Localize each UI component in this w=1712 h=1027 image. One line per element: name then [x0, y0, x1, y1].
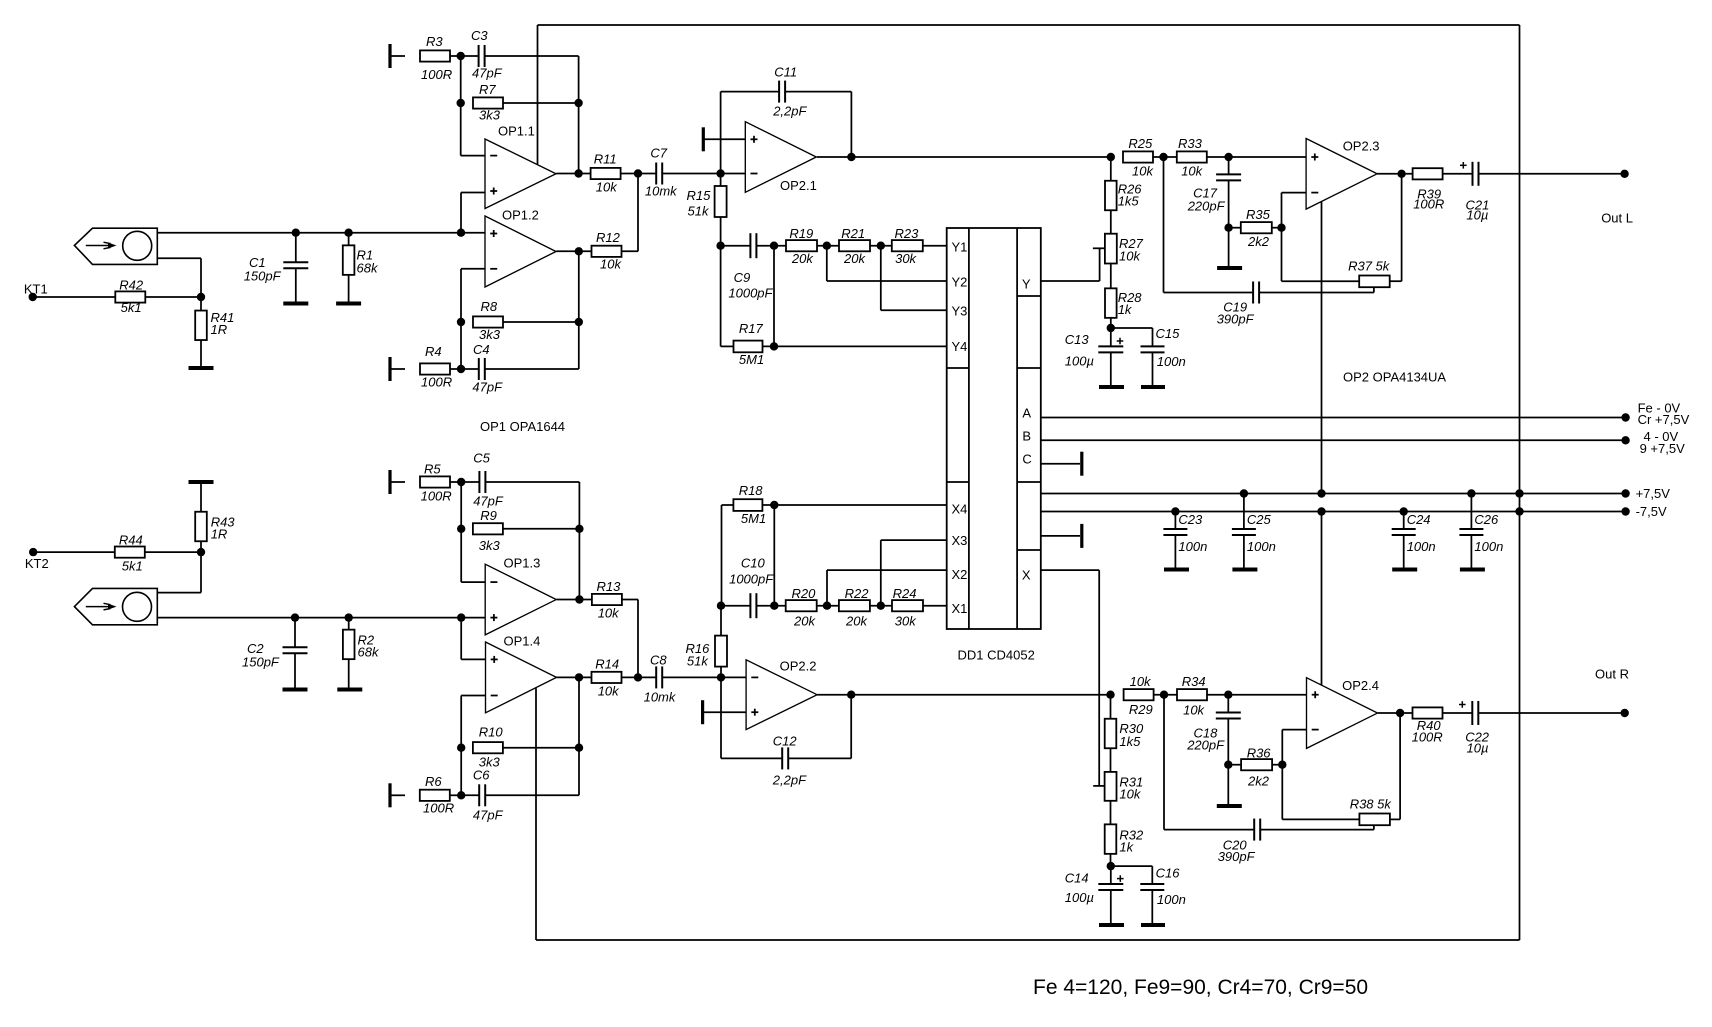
svg-text:R29: R29 [1129, 702, 1153, 717]
ground terminal at OP2.1 + input [702, 127, 705, 151]
svg-text:R34: R34 [1182, 674, 1206, 689]
resistor R29 [1124, 674, 1154, 717]
node: OP2.4 - junction [1278, 761, 1286, 769]
capacitor C20 [1164, 695, 1374, 864]
svg-text:C15: C15 [1156, 326, 1181, 341]
capacitor C9 [721, 233, 774, 300]
resistor R3 [420, 34, 452, 82]
svg-text:10k: 10k [596, 180, 618, 195]
svg-text:C26: C26 [1474, 512, 1499, 527]
wire: feedback column to OP1.3 output [578, 529, 580, 600]
wire: R40 to C22 [1443, 712, 1473, 714]
svg-text:3k3: 3k3 [479, 327, 501, 342]
svg-text:C6: C6 [473, 768, 490, 783]
wire: OP2.4 - input net [1282, 730, 1306, 820]
node: OP1.3 output junction [575, 595, 583, 603]
resistor R42 [115, 278, 145, 316]
wire: right supply rail [1519, 25, 1521, 940]
svg-text:100n: 100n [1474, 539, 1503, 554]
svg-text:1k: 1k [1118, 302, 1133, 317]
capacitor C6 [461, 768, 503, 823]
svg-text:C25: C25 [1247, 512, 1272, 527]
resistor R30 [1105, 695, 1144, 749]
resistor R41 [195, 297, 234, 340]
svg-text:100n: 100n [1407, 539, 1436, 554]
svg-text:10k: 10k [1132, 164, 1154, 179]
svg-text:150pF: 150pF [244, 269, 282, 284]
svg-text:A: A [1022, 406, 1031, 421]
svg-text:+7,5V: +7,5V [1636, 486, 1671, 501]
svg-text:R24: R24 [893, 586, 917, 601]
svg-text:100n: 100n [1157, 354, 1186, 369]
ground below C15 [1141, 385, 1165, 389]
op-amp OP1.1 [485, 124, 556, 209]
node: rail junction OP2.4 supply [1317, 507, 1325, 515]
wire: terminal to R3 [390, 55, 405, 57]
wire: X output tap to R31 [1093, 785, 1105, 787]
wire: R8 node down to C4 node [460, 322, 462, 369]
svg-text:20k: 20k [845, 614, 868, 629]
resistor R44 [115, 533, 145, 574]
wire: OP1.4 - input [461, 696, 485, 748]
ground below R41 [189, 340, 214, 368]
resistor R27 [1105, 234, 1144, 264]
svg-text:C11: C11 [774, 65, 797, 80]
resistor R35 [1229, 207, 1272, 249]
wire: R44 to node [145, 551, 201, 553]
svg-text:OP2.1: OP2.1 [780, 178, 817, 193]
wire: OP2.1 - input stub [721, 173, 746, 175]
svg-text:Out R: Out R [1595, 667, 1629, 682]
svg-text:C9: C9 [734, 270, 751, 285]
node: OP2.2 out / R30 junction [1106, 691, 1114, 699]
capacitor C23 [1163, 512, 1207, 569]
svg-text:9 +7,5V: 9 +7,5V [1640, 441, 1686, 456]
node: OP2.1 - junction [716, 169, 724, 177]
svg-text:2,2pF: 2,2pF [772, 773, 807, 788]
wire: +7,5V rail [1041, 493, 1626, 495]
wire: R23 to DD1 Y1 [923, 245, 947, 247]
wire: OP2.1 output to R25 [817, 156, 1111, 158]
svg-text:100n: 100n [1157, 892, 1186, 907]
node: R9 left junction [457, 525, 465, 533]
svg-text:Cr +7,5V: Cr +7,5V [1638, 412, 1690, 427]
wire: Y output tap to R27 [1093, 247, 1105, 249]
wire: C9 to R19 [756, 245, 785, 247]
node: C2 top junction [291, 613, 299, 621]
svg-text:10mk: 10mk [645, 184, 678, 199]
multiplexer DD1 CD4052 body [947, 228, 1041, 629]
svg-text:C10: C10 [741, 556, 766, 571]
capacitor C22 polarity + [1459, 701, 1466, 708]
svg-text:-7,5V: -7,5V [1636, 504, 1667, 519]
wire: DD1 B control line [1041, 439, 1626, 441]
svg-text:OP1 OPA1644: OP1 OPA1644 [480, 419, 565, 434]
wire: C21 to Out L [1479, 173, 1625, 175]
svg-text:C7: C7 [650, 146, 667, 161]
cartridge input J1 (channel L) [74, 228, 157, 264]
svg-text:5k1: 5k1 [122, 559, 143, 574]
svg-text:10k: 10k [598, 684, 620, 699]
wire: vertical R3 node to OP1.1 - input [461, 56, 485, 156]
node: R3/C3/R7 column junction [457, 52, 465, 60]
svg-text:C3: C3 [471, 28, 488, 43]
node: R10 left junction [457, 744, 465, 752]
svg-text:Y1: Y1 [952, 240, 968, 255]
capacitor C7 [638, 146, 678, 199]
wire: terminal to OP2.2 + [703, 711, 747, 713]
ground below R1 [336, 302, 361, 306]
resistor R6 [420, 774, 454, 816]
svg-text:20k: 20k [791, 251, 814, 266]
resistor R9 [473, 508, 503, 553]
resistor R34 [1177, 674, 1207, 718]
svg-text:10k: 10k [1119, 249, 1141, 264]
wire: R33 to OP2.3 + [1207, 156, 1306, 158]
svg-text:C8: C8 [650, 653, 667, 668]
svg-text:68k: 68k [358, 645, 380, 660]
node: R29/R34/C20 junction [1160, 691, 1168, 699]
svg-text:OP2 OPA4134UA: OP2 OPA4134UA [1343, 370, 1446, 385]
cartridge input J2 (channel R) [74, 588, 157, 624]
wire: -7,5V rail [1041, 511, 1626, 513]
resistor R12 [592, 230, 623, 272]
wire: R31 to R32 [1110, 801, 1112, 825]
ground below C18 [1217, 804, 1242, 808]
resistor R1 [343, 233, 379, 302]
ground below C23 [1164, 568, 1189, 572]
wire: R14 to C8 node [622, 676, 639, 678]
wire: C5 to feedback column [485, 482, 579, 529]
node: R34/C18 junction [1224, 691, 1232, 699]
resistor R10 [473, 725, 504, 770]
svg-text:R37 5k: R37 5k [1348, 259, 1391, 274]
wire: R7 right to feedback column [503, 102, 579, 104]
svg-text:KT1: KT1 [24, 282, 48, 297]
resistor R36 [1228, 746, 1272, 789]
resistor R32 [1105, 824, 1144, 854]
svg-text:47pF: 47pF [472, 66, 503, 81]
ground below C26 [1460, 568, 1485, 572]
svg-text:X: X [1022, 568, 1031, 583]
resistor R33 [1177, 136, 1207, 179]
capacitor C3 [461, 28, 503, 81]
label OP2 OPA4134UA [1343, 370, 1446, 385]
resistor R37 [1282, 259, 1391, 288]
ground below C2 [283, 688, 308, 692]
svg-text:R17: R17 [739, 321, 764, 336]
svg-text:R14: R14 [595, 657, 619, 672]
resistor R40 [1412, 707, 1443, 744]
wire: R21 to R23 [870, 245, 892, 247]
node: C9 right junction [770, 242, 778, 250]
wire: DD1 INH pin [1041, 535, 1080, 537]
wire: R5 to C5 node [450, 481, 461, 483]
wire: R15 node down to R17 [721, 246, 734, 347]
svg-text:1R: 1R [211, 527, 228, 542]
svg-text:1R: 1R [211, 322, 228, 337]
svg-text:2,2pF: 2,2pF [772, 104, 807, 119]
svg-text:R3: R3 [426, 34, 443, 49]
svg-text:10µ: 10µ [1466, 208, 1488, 223]
svg-text:R21: R21 [841, 226, 865, 241]
wire: R19 to R21 [817, 245, 839, 247]
svg-text:1k5: 1k5 [1118, 194, 1140, 209]
resistor R2 [343, 618, 380, 688]
svg-text:390pF: 390pF [1217, 312, 1255, 327]
resistor R13 [592, 579, 622, 621]
ground terminal at OP2.2 + input [701, 700, 704, 724]
svg-text:30k: 30k [895, 251, 917, 266]
node: R18 right junction [770, 501, 778, 509]
svg-text:2k2: 2k2 [1247, 774, 1270, 789]
svg-text:R10: R10 [479, 725, 504, 740]
capacitor C12 [721, 677, 851, 787]
svg-text:R20: R20 [792, 586, 817, 601]
node: C14/C16 junction [1107, 862, 1115, 870]
capacitor C19 [1164, 157, 1374, 327]
resistor R26 [1105, 157, 1142, 210]
wire: DD1 C control pin [1041, 463, 1080, 465]
svg-text:C13: C13 [1065, 332, 1090, 347]
op-amp OP1.3 [485, 556, 556, 635]
svg-text:20k: 20k [793, 614, 816, 629]
wire: R13 down to R14 node [622, 600, 638, 678]
svg-text:R23: R23 [895, 226, 920, 241]
svg-text:C5: C5 [473, 451, 490, 466]
wire: R3 to C3 node [450, 55, 457, 57]
svg-text:5M1: 5M1 [739, 352, 764, 367]
svg-text:10mk: 10mk [644, 690, 677, 705]
capacitor C5 [461, 451, 504, 509]
svg-text:R36: R36 [1247, 746, 1272, 761]
capacitor C4 [461, 342, 503, 395]
wire: terminal to R4 [390, 368, 405, 370]
wire: feedback column to OP1.1 output [578, 103, 580, 174]
svg-text:3k3: 3k3 [479, 538, 501, 553]
input terminal of R3 [388, 44, 391, 68]
capacitor C2 [242, 618, 308, 688]
wire: C6 to feedback column [485, 794, 579, 796]
node: R9 right junction [575, 525, 583, 533]
svg-text:X2: X2 [952, 567, 968, 582]
node: C9 node (R15 bottom) [716, 242, 724, 250]
node: R5/C5 junction [457, 478, 465, 486]
node: main L node at OP1.2 + [457, 229, 465, 237]
wire: R8 right to feedback column [503, 321, 579, 323]
resistor R43 [195, 512, 235, 552]
op-amp OP2.3 [1306, 139, 1379, 210]
wire: C9 right node down to R17 node [773, 246, 775, 347]
svg-text:68k: 68k [357, 261, 379, 276]
capacitor C15 [1111, 326, 1186, 386]
svg-text:390pF: 390pF [1218, 849, 1256, 864]
svg-text:Fe 4=120, Fe9=90, Cr4=70, Cr9=: Fe 4=120, Fe9=90, Cr4=70, Cr9=50 [1033, 976, 1368, 999]
node: C10 node [717, 602, 725, 610]
wire: OP1.1 + input [461, 193, 485, 233]
ground below C13 [1099, 385, 1124, 389]
wire: R27 to R28 [1110, 264, 1112, 289]
wire: R19/R21 node to DD1 Y2 [827, 246, 947, 281]
node: R33/C17 junction [1224, 153, 1232, 161]
capacitor C21 polarity + [1460, 162, 1467, 169]
capacitor C18 [1186, 695, 1241, 804]
wire: C10 to R20 [756, 605, 786, 607]
svg-text:C4: C4 [473, 342, 490, 357]
wire: R25 to R33 [1153, 156, 1177, 158]
svg-text:OP1.2: OP1.2 [502, 208, 539, 223]
svg-text:47pF: 47pF [473, 808, 504, 823]
ground below C24 [1392, 568, 1417, 572]
svg-text:Y3: Y3 [952, 304, 968, 319]
svg-text:220pF: 220pF [1187, 199, 1226, 214]
resistor R4 [420, 344, 452, 390]
resistor R28 [1105, 288, 1142, 318]
svg-text:R38 5k: R38 5k [1350, 797, 1393, 812]
svg-text:R11: R11 [594, 152, 617, 167]
wire: cartridge J1 output to OP1.2 + input (main L node) [157, 232, 485, 234]
op-amp OP2.4 [1307, 678, 1379, 749]
svg-text:100n: 100n [1178, 539, 1207, 554]
wire: R18 left down to C10 node [721, 505, 723, 606]
node: R19/R21 junction [823, 242, 831, 250]
node: -7,5V terminal [1621, 504, 1667, 519]
wire: R36 to OP2.4 - node [1272, 764, 1282, 766]
node: R4/C4 junction [457, 365, 465, 373]
node KT2 terminal [25, 548, 49, 571]
node: rail junction right rail - [1515, 507, 1523, 515]
svg-text:Y2: Y2 [952, 275, 968, 290]
svg-text:X4: X4 [952, 502, 968, 517]
wire: C22 to Out R [1478, 712, 1624, 714]
svg-text:R18: R18 [739, 483, 764, 498]
node: OP2.1 output junction [847, 153, 855, 161]
capacitor C24 [1392, 512, 1436, 569]
svg-text:Out L: Out L [1601, 211, 1633, 226]
wire: R21/R23 node to DD1 Y3 [881, 246, 947, 311]
wire: R12 up to R11 node [622, 174, 639, 252]
node: R14/R13/C8 junction [634, 673, 642, 681]
node: rail junction C23 [1171, 507, 1179, 515]
ground below C25 [1232, 568, 1257, 572]
svg-text:51k: 51k [688, 204, 710, 219]
input terminal of R5 [388, 470, 391, 494]
node: C13/C15 junction [1107, 324, 1115, 332]
wire: OP1.1 output to R11 [556, 173, 590, 175]
svg-text:100n: 100n [1247, 539, 1276, 554]
wire: cartridge J2 output to OP1.3 + input (main R node) [157, 617, 485, 619]
ground below C1 [283, 302, 308, 306]
node: R8 left junction [457, 318, 465, 326]
resistor R21 [839, 226, 870, 266]
svg-text:Y4: Y4 [952, 339, 968, 354]
wire: R18 to DD1 X4 [762, 504, 946, 506]
wire: terminal to R6 [390, 794, 405, 796]
node: OP2.1 out / R26 junction [1107, 153, 1115, 161]
wire: R22 to R24 [870, 605, 892, 607]
svg-text:10k: 10k [1130, 674, 1152, 689]
svg-text:R7: R7 [479, 82, 496, 97]
svg-text:Y: Y [1022, 277, 1031, 292]
wire: R20/R22 node to DD1 X2 [827, 570, 947, 606]
capacitor C14 polarity + [1117, 875, 1124, 882]
node: R11/R12/C7 junction [634, 169, 642, 177]
wire: DD1 Y output [1041, 248, 1100, 281]
wire: node down to cartridge J2 [157, 552, 201, 593]
svg-text:100R: 100R [421, 489, 452, 504]
svg-text:C23: C23 [1178, 512, 1203, 527]
svg-text:100R: 100R [1412, 730, 1443, 745]
node: +7,5V terminal [1621, 486, 1670, 501]
svg-text:30k: 30k [895, 614, 917, 629]
wire: R6 to C6 node [450, 794, 461, 796]
svg-text:100R: 100R [421, 67, 452, 82]
node: OP2.4 output junction [1396, 709, 1404, 717]
node: rail junction C25 [1240, 489, 1248, 497]
svg-text:R13: R13 [597, 579, 622, 594]
wire: R32 to C14 node [1110, 854, 1112, 866]
node: R7 left junction [457, 99, 465, 107]
node: OP2.3 output junction [1397, 170, 1405, 178]
wire: R42 to node [145, 296, 201, 298]
wire: R30 to R31 [1110, 748, 1112, 772]
svg-text:C16: C16 [1156, 866, 1181, 881]
svg-text:100R: 100R [423, 801, 454, 816]
svg-text:10k: 10k [600, 257, 622, 272]
wire: +7.5V top rail [538, 25, 1520, 164]
node: R8 right junction [575, 318, 583, 326]
svg-text:R8: R8 [481, 299, 498, 314]
node: R25/R33/C19 junction [1159, 153, 1167, 161]
svg-text:R35: R35 [1246, 207, 1271, 222]
svg-text:1000pF: 1000pF [728, 286, 773, 301]
svg-text:DD1 CD4052: DD1 CD4052 [958, 648, 1035, 663]
node: R2 top junction [345, 613, 353, 621]
node: B terminal [1621, 429, 1685, 456]
svg-text:KT2: KT2 [25, 556, 49, 571]
svg-text:R15: R15 [687, 188, 712, 203]
resistor R19 [786, 226, 817, 266]
op-amp OP1.4 [486, 634, 557, 713]
wire: OP2.4 supply stub to -7.5V rail [1321, 512, 1323, 686]
svg-text:10k: 10k [1183, 703, 1205, 718]
ground terminal at INH pin [1080, 524, 1083, 548]
wire: R18 right down to C10 right node [773, 505, 775, 606]
resistor R15 [687, 174, 727, 246]
svg-text:R5: R5 [424, 462, 441, 477]
wire: OP2.2 - input stub [721, 676, 746, 678]
svg-text:R6: R6 [425, 774, 442, 789]
wire: R37 to OP2.3 output [1390, 174, 1402, 281]
node: R42/R41/cartridge junction [197, 293, 205, 301]
input terminal of R6 [388, 783, 391, 807]
node: C17/R35 junction [1224, 224, 1232, 232]
svg-text:OP2.2: OP2.2 [780, 659, 817, 674]
node: OP2.2 - junction [717, 673, 725, 681]
svg-text:R22: R22 [845, 586, 870, 601]
node: OP1.2 output junction [575, 247, 583, 255]
label Fe/Cr time constants [1033, 976, 1368, 999]
svg-text:1k: 1k [1119, 840, 1134, 855]
svg-text:C12: C12 [773, 734, 798, 749]
wire: C4 to feedback column [485, 368, 579, 370]
wire: R29 to R34 [1154, 694, 1177, 696]
resistor R25 [1123, 136, 1154, 179]
ground below C14 [1099, 923, 1124, 927]
wire: R35 to OP2.3 - node [1272, 227, 1282, 229]
wire: OP1.3 output to R13 [557, 599, 592, 601]
wire: R11 to C7 node [621, 173, 638, 175]
